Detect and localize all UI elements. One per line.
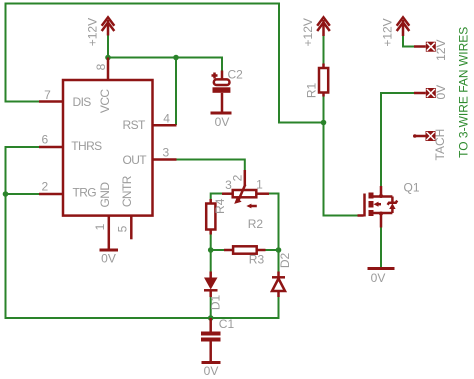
svg-text:C2: C2 [228, 67, 244, 81]
label R4 [213, 198, 227, 214]
capacitor C2 [212, 71, 231, 112]
svg-text:0V: 0V [101, 252, 116, 266]
ground at pin 1 [100, 249, 119, 252]
svg-text:0V: 0V [434, 85, 448, 100]
svg-text:3: 3 [225, 178, 232, 192]
wire pin2 TRG stub connection [6, 193, 40, 195]
svg-text:Q1: Q1 [404, 180, 420, 194]
ground at Q1 source [368, 267, 395, 270]
wire OUT pin3 to pot wiper [177, 160, 245, 171]
label +12V (arrow 2) [301, 18, 315, 46]
svg-text:1: 1 [93, 223, 107, 230]
wire D1 cathode to bottom run [210, 297, 212, 318]
wire R1 bottom lead [323, 97, 325, 123]
capacitor C1 [201, 318, 221, 361]
svg-text:C1: C1 [219, 317, 235, 331]
svg-text:0V: 0V [215, 115, 230, 129]
wire supply rail to C2 [108, 58, 222, 71]
svg-text:8: 8 [94, 63, 108, 70]
wire 0V pad to Q1 drain [381, 93, 414, 186]
wire +12V arrow lead to supply rail [107, 35, 109, 58]
svg-text:D2: D2 [278, 253, 292, 269]
svg-text:R2: R2 [248, 217, 264, 231]
label +12V (arrow 1) [86, 18, 100, 46]
svg-text:0V: 0V [204, 364, 219, 378]
wire Q1 source to ground [380, 228, 382, 268]
pin 1 GND lead [108, 216, 111, 249]
node C1 junction [208, 315, 214, 321]
wire net THRS/TRG: pin6 left, down left edge, bottom run to C1 junction [6, 147, 211, 318]
pin 5 CNTR stub [130, 216, 133, 240]
svg-text:+12V: +12V [381, 18, 395, 46]
pin 4 RST stub [153, 124, 177, 127]
svg-text:DIS: DIS [73, 95, 92, 109]
label R1 [305, 83, 319, 99]
resistor R3 [224, 246, 266, 253]
wire supply rail down to RST pin4 [175, 58, 177, 126]
wire net DIS: junction down to Q1 gate [324, 123, 358, 216]
resistor R1 [319, 64, 328, 97]
pin 6 THRS stub [39, 146, 63, 149]
svg-text:OUT: OUT [123, 153, 148, 167]
pad TACH [413, 131, 436, 141]
label TACH pad [433, 129, 447, 161]
pin number 5 [116, 225, 130, 232]
pin number 2 (pot) [231, 174, 245, 181]
svg-text:2: 2 [42, 179, 49, 193]
svg-text:2: 2 [231, 174, 245, 181]
wire bottom run C1 junction to D2 anode [211, 297, 279, 318]
supply +12V arrow 3 (above 12V pad) [397, 17, 410, 36]
svg-text:TACH: TACH [433, 129, 447, 161]
node R3 left junction [208, 247, 214, 253]
pin number 1 [93, 223, 107, 230]
svg-text:3: 3 [162, 146, 169, 160]
svg-text:+12V: +12V [301, 18, 315, 46]
node TRG junction [3, 191, 9, 197]
op-amp U1 555 timer body [63, 80, 153, 216]
ground at C2 [211, 112, 232, 115]
transistor Q1 N-MOSFET [358, 186, 398, 228]
pin 8 VCC stub [107, 58, 110, 81]
pin name VCC [98, 89, 112, 113]
resistor R4 [206, 199, 215, 235]
label D1 [209, 295, 223, 311]
node supply junction at pin8 [105, 55, 111, 61]
wire pot pin3 to R4 top [211, 194, 222, 200]
diode D2 [272, 272, 285, 298]
svg-text:GND: GND [98, 182, 112, 208]
wire net DIS: pin7 left, top run, down right side to R1 junction [6, 4, 324, 123]
wire D1 anode from junction [210, 250, 212, 272]
svg-text:TRG: TRG [73, 185, 97, 199]
wire R3 right green [266, 249, 279, 251]
svg-text:12V: 12V [434, 40, 448, 61]
svg-text:D1: D1 [209, 295, 223, 311]
ground at C1 [202, 361, 221, 364]
svg-text:TO 3-WIRE FAN WIRES: TO 3-WIRE FAN WIRES [457, 27, 471, 158]
svg-text:7: 7 [44, 88, 51, 102]
label TO 3-WIRE FAN WIRES [457, 27, 471, 158]
svg-text:+12V: +12V [86, 18, 100, 46]
svg-text:0V: 0V [371, 271, 386, 285]
label 12V pad [434, 40, 448, 61]
svg-text:VCC: VCC [98, 89, 112, 113]
node supply junction at RST drop [173, 55, 179, 61]
pin number 8 [94, 63, 108, 70]
svg-text:THRS: THRS [71, 139, 102, 153]
svg-text:5: 5 [116, 225, 130, 232]
wire R4 bottom to R3 left junction [210, 235, 212, 251]
label +12V (arrow 3) [381, 18, 395, 46]
svg-text:1: 1 [256, 178, 263, 192]
svg-text:R4: R4 [213, 198, 227, 214]
label 0V pad [434, 85, 448, 100]
wire R3 left green [211, 249, 224, 251]
pin name CNTR [120, 175, 134, 207]
label D2 [278, 253, 292, 269]
pin 2 TRG stub [39, 193, 63, 196]
svg-text:R1: R1 [305, 83, 319, 99]
wire R1 top lead [323, 36, 325, 64]
pad 12V [414, 42, 436, 52]
pin 7 DIS stub [39, 100, 63, 103]
node R3 right junction [276, 247, 282, 253]
pad 0V [414, 88, 436, 98]
supply +12V arrow 1 [102, 17, 115, 35]
wire +12V arrow to 12V pad [403, 36, 414, 47]
pin 3 OUT stub [153, 158, 177, 161]
svg-text:R3: R3 [249, 253, 265, 267]
node R1 bottom junction [321, 120, 327, 126]
wire pot pin1 down right side to R3 right junction and D2 cathode [269, 194, 279, 272]
diode D1 [204, 272, 218, 298]
svg-text:CNTR: CNTR [120, 175, 134, 207]
potentiometer R2 [222, 170, 269, 208]
svg-text:4: 4 [163, 111, 170, 125]
pin name GND [98, 182, 112, 208]
svg-text:RST: RST [123, 118, 146, 132]
svg-text:6: 6 [42, 132, 49, 146]
supply +12V arrow 2 (above R1) [317, 17, 330, 36]
